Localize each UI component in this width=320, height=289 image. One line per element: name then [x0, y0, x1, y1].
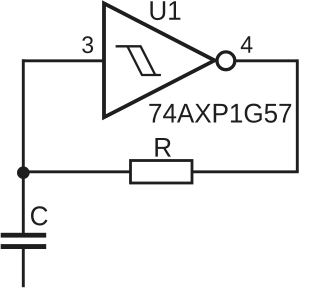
schmitt-trigger inverter U1 (triangle body, hysteresis symbol, output bubble) — [104, 3, 235, 117]
capacitor C (two plates) — [1, 233, 47, 249]
label U1 (reference designator) — [150, 1, 180, 20]
wire: feedback from resistor to junction node — [23, 170, 130, 173]
pin 4 (output pin number) — [241, 36, 253, 53]
wire: right vertical rail — [296, 59, 299, 171]
wire: output from bubble to right rail — [236, 59, 297, 62]
pin 3 (input pin number) — [82, 36, 93, 53]
wire: left vertical rail — [22, 59, 25, 233]
resistor R — [131, 161, 193, 184]
wire: stub below capacitor — [22, 249, 25, 287]
label 74AXP1G57 (part value) — [149, 104, 291, 123]
wire: feedback from right rail to resistor — [192, 170, 299, 173]
label C — [31, 206, 48, 225]
label R — [155, 138, 171, 157]
wire: input net from left rail to pin 3 — [23, 59, 104, 62]
node: junction of feedback, input rail and capacitor — [17, 166, 30, 179]
